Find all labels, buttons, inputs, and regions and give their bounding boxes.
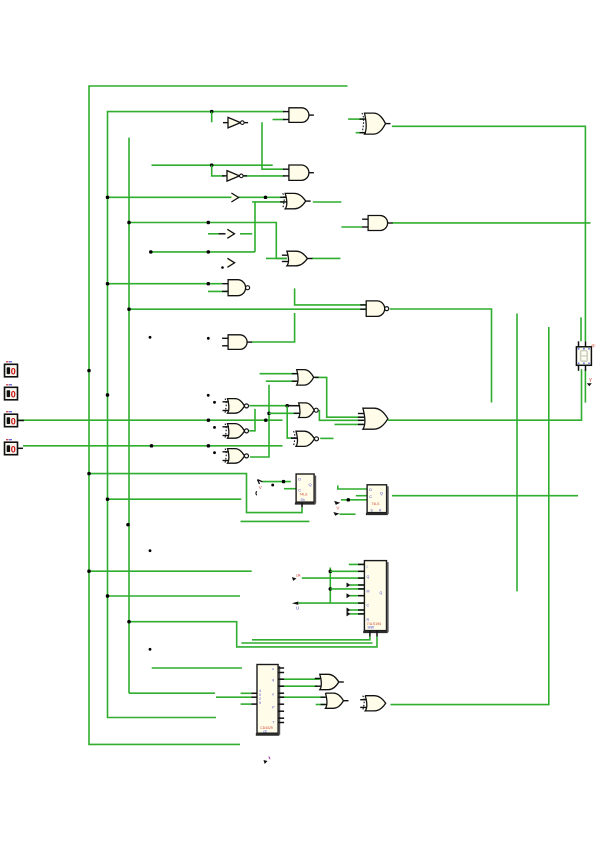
pin display top-left xyxy=(578,341,580,347)
wire U21 pin9 stub xyxy=(350,613,365,615)
wire bus1 x=89 top row y=86 and bottom row y=744 xyxy=(89,86,348,744)
xor U25 xyxy=(360,696,386,711)
node floating i xyxy=(149,648,152,651)
logic state input 3 xyxy=(5,412,18,427)
node junction on bus2 y=395 xyxy=(106,393,109,396)
svg-text:I: I xyxy=(367,565,368,569)
node junction y=445.8 b xyxy=(207,444,210,447)
wire row y=596 xyxy=(108,595,241,597)
and U10 xyxy=(362,216,393,231)
logic state input 1 xyxy=(5,362,18,377)
pin U22 left 2 xyxy=(252,696,258,698)
wire U5 XOR output xyxy=(313,201,342,203)
marker at U20 lower xyxy=(333,512,339,516)
pin U16 input 1 lead xyxy=(287,405,299,407)
wire row y=251.9 xyxy=(151,251,255,253)
register U21 xyxy=(363,561,388,633)
wire U15 XNOR output riser x=269 xyxy=(250,385,269,457)
pin U21 bottom 2 xyxy=(376,631,378,637)
pin U22 right 5 xyxy=(278,692,284,694)
svg-text:C: C xyxy=(369,494,372,499)
arrow marker 2 xyxy=(227,229,234,238)
wire segment to U22 pin C xyxy=(241,703,253,705)
wire row y=473.6 under-route to U19 bottom pin xyxy=(89,474,302,513)
wire floating row y=521.4 xyxy=(241,520,310,522)
wire U21 pin3 from clock marker xyxy=(302,577,365,579)
node junction y=420.2 b xyxy=(264,419,267,422)
counter U22 xyxy=(256,665,279,735)
wire U21 pin6 stub xyxy=(350,595,365,597)
node junction y=445.8 a xyxy=(150,444,153,447)
logic state input 4 xyxy=(5,440,18,455)
wire U10 AND input xyxy=(341,226,362,228)
wire row y=499.2 xyxy=(108,498,242,500)
pin U21 clock marker y=595.7 xyxy=(347,593,351,598)
node junction on bus2 xyxy=(106,196,109,199)
pin U22 right 2 xyxy=(278,672,284,674)
wire U12 OR first input xyxy=(260,373,297,375)
nand U7 xyxy=(222,280,250,296)
pin logic state 3 lead xyxy=(18,420,25,422)
arrow marker at U21 lower xyxy=(292,602,299,605)
wire U11 XOR output to display top pin xyxy=(392,126,586,341)
pin display bottom-right xyxy=(585,365,587,371)
wire U21 pin7 xyxy=(330,602,365,604)
svg-text:M: M xyxy=(367,589,370,593)
pin U19 bottom lead xyxy=(301,502,303,507)
node floating g xyxy=(271,484,274,487)
xor U5 xyxy=(280,193,311,208)
wire U20 input 2 stub xyxy=(356,495,367,497)
svg-text:74LS: 74LS xyxy=(372,502,381,506)
wire U8 NAND output to vertical x=491.5 xyxy=(390,309,492,403)
node junction x=330.3 b xyxy=(329,587,332,590)
wire U20 clock input xyxy=(341,499,367,501)
wire U22 to U24 OR input 1 xyxy=(279,696,325,698)
wire U6 OR output xyxy=(312,257,341,259)
wire inverter U4 output to U2 AND input xyxy=(243,175,285,177)
clock marker at U21 pin3 xyxy=(292,577,297,581)
wire from arrow marker to x=330.3 xyxy=(298,602,330,604)
logic state input 2 xyxy=(5,385,18,400)
wire U13 XNOR output to U16 input xyxy=(249,405,291,407)
pin U22 left 3 xyxy=(252,703,258,705)
svg-text:T: T xyxy=(272,721,274,725)
wire U18 OR output to display bottom pin xyxy=(388,369,582,420)
node junction y=499.8 xyxy=(347,498,350,501)
clock marker at U20 clk xyxy=(334,501,340,505)
node floating a xyxy=(149,336,152,339)
pin U22 right 8 xyxy=(278,710,284,712)
node junction on bus2 y=283.7 xyxy=(106,282,109,285)
wire U6 OR input stub xyxy=(266,257,287,259)
pin display bottom-left xyxy=(578,365,580,371)
wire floating row y=668 xyxy=(152,667,242,669)
svg-text:Shift: Shift xyxy=(368,626,374,630)
wire U18 OR input 3 xyxy=(335,423,363,425)
arrow marker 1 xyxy=(231,193,238,202)
pin U21 left 4 xyxy=(358,584,364,586)
pin U22 right 6 xyxy=(278,696,284,698)
nor U16 xyxy=(294,403,319,418)
node near arrow marker 3 xyxy=(221,266,224,269)
pin U21 bottom 1 xyxy=(369,631,371,637)
svg-text:dp: dp xyxy=(591,343,595,347)
or U12 xyxy=(292,370,319,386)
wire row y=197.3 to U5 XOR first input xyxy=(108,196,285,198)
wire branch down to inverter U4 xyxy=(212,165,225,176)
wire U21 pin8 stub xyxy=(350,609,365,611)
node junction y=283.7 xyxy=(207,282,210,285)
wire bus2 x=107.5 row y=111.6 (to U1 AND) and bottom row y=717.5 xyxy=(108,112,285,718)
pin U22 right 10 xyxy=(278,722,284,724)
pin logic state 4 lead xyxy=(18,447,24,449)
svg-text:Q: Q xyxy=(380,591,383,595)
node junction y=481.6 xyxy=(282,480,285,483)
wire floating row y=643 xyxy=(241,642,372,644)
wire U7 NAND second input xyxy=(208,290,228,292)
node junction on bus3 xyxy=(127,221,130,224)
pin U21 left 7 xyxy=(358,602,364,604)
svg-text:V: V xyxy=(259,485,262,490)
wire row y=283.7 to U7 NAND xyxy=(108,283,223,285)
wire U17 output stub xyxy=(320,437,333,439)
wire vertical x=262 to U2 AND first input xyxy=(262,122,285,169)
wire row to U22 pin B xyxy=(216,696,252,698)
wire U12 OR output to U18 OR input 1 xyxy=(315,377,363,417)
wire stub down from junction xyxy=(211,112,213,123)
node junction y=405.7 xyxy=(286,404,289,407)
wire to U16 second input xyxy=(269,412,299,414)
svg-text:Sh: Sh xyxy=(301,498,305,502)
svg-text:D: D xyxy=(298,477,301,482)
wire U11 XOR second input stub xyxy=(356,132,369,134)
wire vertical x=581 above display xyxy=(580,317,582,341)
wire U16 output to U18 OR input 2 xyxy=(319,410,363,420)
pin U21 left 5 xyxy=(358,588,364,590)
wire U21 pin5 xyxy=(330,588,365,590)
pin U21 clock marker y=610 xyxy=(347,608,351,613)
node junction on bus3 y=621.7 xyxy=(127,620,130,623)
svg-text:q: q xyxy=(272,678,274,682)
pin U21 clock marker y=613.9 xyxy=(347,611,351,616)
wire vertical x=517 xyxy=(516,314,518,592)
wire U24 OR input 2 stub xyxy=(316,704,326,706)
svg-text:u: u xyxy=(272,667,274,671)
svg-text:0: 0 xyxy=(11,445,16,455)
wire branch down to U17 input xyxy=(287,406,291,438)
wire row y=222.5 to U6 OR input xyxy=(129,223,287,259)
nand U8 xyxy=(360,301,389,317)
svg-text:0: 0 xyxy=(11,390,16,400)
node junction on bus1 y=571.2 xyxy=(87,570,90,573)
wire U21 pin2 xyxy=(330,570,365,572)
pin U21 left 1 xyxy=(358,563,364,565)
wire U10 AND output long row y=222.9 xyxy=(392,222,591,224)
node junction y=165.2 xyxy=(210,164,213,167)
svg-text:74LS: 74LS xyxy=(300,492,309,496)
svg-text:Q: Q xyxy=(380,491,383,496)
wire U21 pin4 stub xyxy=(350,584,365,586)
svg-text:U: U xyxy=(296,605,299,610)
xor U11 xyxy=(360,113,391,134)
pin U22 right 4 xyxy=(278,685,284,687)
wire U20 input 1 xyxy=(338,486,367,490)
wire U20 output row y=495.7 xyxy=(392,495,578,497)
xnor U13 xyxy=(223,399,249,414)
wire U1 AND second input stub xyxy=(273,119,285,121)
pin U21 left 6 xyxy=(358,595,364,597)
clock marker at U19 xyxy=(258,480,263,484)
wire U25 XOR output long route x=548.8 xyxy=(391,327,549,705)
pin U22 left 1 xyxy=(252,692,258,694)
xnor U17 xyxy=(291,431,319,446)
pin U22 right 1 xyxy=(278,667,284,669)
wire riser x=255 xyxy=(254,202,256,252)
svg-text:clk: clk xyxy=(296,573,301,578)
or U24 xyxy=(321,693,349,708)
wire to U19 input 1 xyxy=(263,481,291,483)
svg-text:Q: Q xyxy=(309,482,312,487)
pin U21 left 2 xyxy=(358,570,364,572)
node junction y=251.9 xyxy=(207,250,210,253)
wire stub y=514.2 xyxy=(340,513,356,515)
node floating b xyxy=(207,337,210,340)
or U23 xyxy=(315,674,344,689)
svg-text:4029: 4029 xyxy=(259,689,261,705)
wire bus3 bottom row y=693 to U13 pin region xyxy=(129,692,215,694)
and U9 xyxy=(222,335,252,350)
wire row y=621.7 routed to U21 bottom pin 2 xyxy=(129,622,377,647)
wire U12 OR second input xyxy=(266,380,297,382)
wire to U8 NAND first input xyxy=(295,288,367,305)
node junction on y=111.6 xyxy=(210,110,213,113)
node junction y=197.3 xyxy=(264,196,267,199)
pin U21 left 3 xyxy=(358,577,364,579)
wire U11 XOR first input stub xyxy=(348,118,364,120)
wire row y=639.8 to U21 bottom pin 1 xyxy=(252,637,370,640)
wire arrow marker 2 input xyxy=(208,233,219,235)
node junction y=222.5 xyxy=(207,221,210,224)
wire U19 input 2 stub xyxy=(284,488,296,490)
wire U22 to U23 OR input 1 xyxy=(279,678,320,680)
or U18 4-input xyxy=(358,408,388,429)
wire row y=571.2 xyxy=(89,570,252,572)
node floating c xyxy=(207,394,210,397)
origin marker below U22 xyxy=(264,760,268,764)
wire U14 XNOR output riser x=255 xyxy=(249,409,255,431)
wire row y=309.2 to U8 NAND second input xyxy=(129,308,366,310)
wire U21 pin1 stub xyxy=(349,563,365,565)
pin U21 clock marker y=585 xyxy=(347,583,351,588)
wire bus3 x=129 xyxy=(128,138,130,694)
svg-text:0: 0 xyxy=(11,417,16,427)
node junction y=420.2 a xyxy=(207,419,210,422)
or U6 xyxy=(282,251,313,266)
pin U21 left 9 xyxy=(358,613,364,615)
and U1 xyxy=(283,108,314,123)
svg-text:D: D xyxy=(369,487,372,492)
node junction x=330.3 a xyxy=(329,570,332,573)
inverter U4 xyxy=(222,171,247,182)
svg-text:Q: Q xyxy=(367,575,370,579)
wire long row y=445.8 from logic state input xyxy=(23,445,283,447)
svg-text:V: V xyxy=(336,505,339,510)
pin U22 right 9 xyxy=(278,717,284,719)
node floating f xyxy=(213,451,216,454)
xnor U15 xyxy=(223,449,249,464)
pin display top-right xyxy=(585,341,587,347)
svg-text:C: C xyxy=(367,604,370,608)
wire segment to U22 pin A xyxy=(241,692,253,694)
wire U9 AND output riser x=294.6 xyxy=(252,313,295,342)
svg-text:Y: Y xyxy=(589,378,593,384)
svg-text:0: 0 xyxy=(11,367,16,377)
node endpoint y=251.9 xyxy=(149,250,152,253)
wire U22 to U23 OR input 2 xyxy=(279,685,318,687)
arrow marker 3 xyxy=(227,258,234,267)
pin U21 left 8 xyxy=(358,609,364,611)
wire arrow marker 2 output xyxy=(240,233,252,235)
wire vertical x=585.4 below display xyxy=(584,369,586,402)
node junction y=413.3 xyxy=(267,412,270,415)
pin U17 input lead xyxy=(291,437,298,439)
wire long row y=420.2 from logic state input xyxy=(18,419,283,421)
node junction on bus1 y=473.6 xyxy=(87,472,90,475)
wire row y=165.2 to U2 AND xyxy=(152,164,273,166)
node junction on bus2 y=499.2 xyxy=(106,498,109,501)
and U2 xyxy=(283,165,314,180)
inverter U3 xyxy=(223,117,248,128)
flip-flop U20 xyxy=(366,485,388,514)
svg-text:n: n xyxy=(272,693,274,697)
node junction on bus1 y=370.6 xyxy=(87,369,90,372)
pin U22 right 3 xyxy=(278,678,284,680)
node junction on bus3 y=309.2 xyxy=(127,308,130,311)
wire U5 XOR second input xyxy=(252,201,284,203)
node floating d xyxy=(213,401,216,404)
7-segment display xyxy=(576,347,591,366)
wire vertical x=330.3 at U21 xyxy=(329,568,331,604)
flip-flop U19 xyxy=(295,474,315,504)
pin arrow marker 2 lead xyxy=(219,233,226,235)
node floating h xyxy=(149,549,152,552)
node junction on bus3 y=524.7 xyxy=(126,523,129,526)
pin U22 right 7 xyxy=(278,703,284,705)
node junction on bus2 y=596 xyxy=(106,594,109,597)
node floating e xyxy=(213,426,216,429)
xnor U14 xyxy=(223,424,249,439)
